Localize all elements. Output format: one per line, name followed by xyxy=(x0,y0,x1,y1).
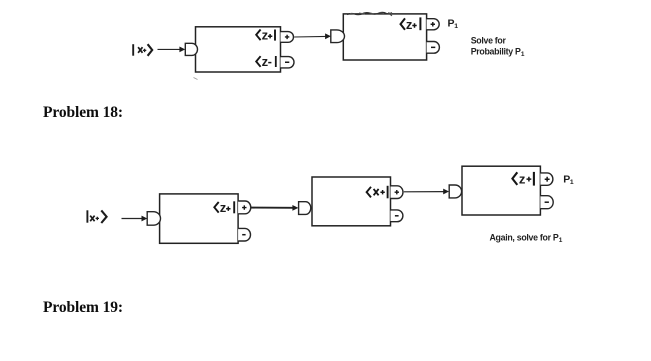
output port minus of M1 xyxy=(281,57,295,68)
bra label <z+| inside M1 xyxy=(256,28,275,43)
bra label <z+| inside M5 xyxy=(512,172,534,187)
svg-text:1: 1 xyxy=(570,179,574,186)
wire w3: ket to analyzer M3 input xyxy=(122,216,148,222)
input port of M2 xyxy=(331,30,345,43)
bra label <z-| inside M1 xyxy=(256,54,276,69)
svg-text:1: 1 xyxy=(521,51,525,58)
bra label <z+| inside M2 xyxy=(401,17,421,32)
wire w5: M4 plus port to analyzer M5 input xyxy=(404,189,449,195)
svg-text:Problem 19:: Problem 19: xyxy=(43,299,123,316)
input port of M4 xyxy=(299,202,311,215)
svg-text:Problem 18:: Problem 18: xyxy=(43,104,123,121)
stray pencil mark below M1 xyxy=(194,78,198,80)
analyzer box M2 (z measurement) xyxy=(343,14,426,60)
output port plus of M2 xyxy=(427,19,440,30)
input port of M1 xyxy=(185,43,197,55)
bra label <x+| inside M4 xyxy=(367,186,388,199)
analyzer box M5 (z measurement) xyxy=(462,166,540,215)
analyzer box M3 (z measurement) xyxy=(160,194,239,243)
bra label <z+| inside M3 xyxy=(214,200,234,215)
output port minus of M4 xyxy=(391,210,403,222)
output port plus of M4 xyxy=(391,186,403,199)
label P1 (bottom probability) xyxy=(563,173,574,186)
wire w4: M3 plus port to analyzer M4 input xyxy=(251,205,299,211)
label P1 (top probability) xyxy=(448,18,459,31)
svg-text:1: 1 xyxy=(454,23,458,30)
input port of M5 xyxy=(449,185,461,198)
annotation: Again, solve for P1 xyxy=(490,232,563,244)
output port plus of M3 xyxy=(238,201,251,214)
svg-text:z: z xyxy=(406,17,413,32)
svg-text:Again, solve for P: Again, solve for P xyxy=(490,232,559,242)
svg-text:z: z xyxy=(519,172,526,187)
output port minus of M5 xyxy=(540,196,553,209)
state label |x+> (top input ket) xyxy=(133,44,152,56)
smudge scribble on M2 top edge xyxy=(347,12,392,15)
analyzer box M1 (z measurement) xyxy=(196,27,281,72)
wire w1: ket to analyzer M1 input xyxy=(158,47,186,53)
input port of M3 xyxy=(147,212,160,226)
output port plus of M1 xyxy=(281,32,294,43)
state label |x+> (bottom input ket) xyxy=(87,210,106,223)
svg-text:z: z xyxy=(262,54,269,69)
wire w2: M1 plus port to analyzer M2 input xyxy=(294,33,331,39)
svg-text:Solve for: Solve for xyxy=(471,36,507,46)
output port plus of M5 xyxy=(540,173,552,185)
output port minus of M2 xyxy=(427,42,440,54)
svg-text:z: z xyxy=(262,28,269,43)
analyzer box M4 (x measurement) xyxy=(312,177,391,226)
svg-text:z: z xyxy=(220,200,227,215)
svg-text:1: 1 xyxy=(559,237,563,244)
annotation: Solve for Probability P1 xyxy=(471,36,525,58)
svg-text:Probability P: Probability P xyxy=(471,47,521,57)
output port minus of M3 xyxy=(238,228,250,241)
